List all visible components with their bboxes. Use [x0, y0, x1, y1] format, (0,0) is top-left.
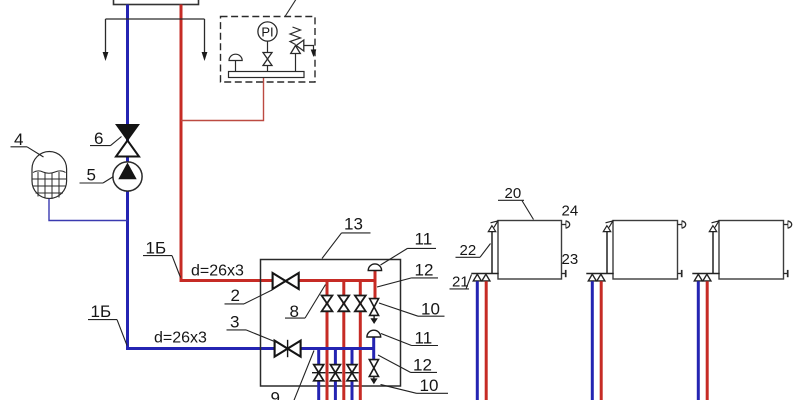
pump 5: [113, 162, 142, 191]
label 1Б (return): [88, 302, 127, 346]
pressure gauge PI U-PI: [267, 41, 269, 53]
wire: red riser radiator 2: [600, 281, 603, 400]
wire: blue riser radiator 3: [697, 281, 700, 400]
label 6: [90, 129, 122, 148]
label 22: [456, 242, 491, 259]
label 5: [80, 166, 114, 185]
svg-text:4: 4: [14, 130, 23, 149]
safety valve with spring: [295, 54, 297, 72]
arrow down left: [103, 52, 109, 61]
label 10 (supply drain): [379, 300, 445, 319]
manifold cabinet box 13: [261, 260, 401, 387]
svg-text:12: 12: [413, 356, 432, 375]
wire: blue return manifold: [301, 347, 375, 350]
wire: red loop drop 3: [359, 281, 362, 400]
label 11 (return air vent): [381, 329, 438, 348]
air vent 24: [562, 224, 567, 226]
safety group dashed box: [221, 17, 316, 83]
valve 3 (blue inlet valve with stem): [275, 341, 301, 357]
svg-text:13: 13: [344, 215, 363, 234]
wire: blue loop stub 2: [334, 349, 337, 400]
svg-text:20: 20: [505, 185, 522, 202]
wire: red riser radiator 1: [485, 281, 488, 400]
svg-text:9: 9: [271, 389, 280, 400]
svg-text:5: 5: [87, 166, 96, 185]
svg-text:d=26x3: d=26x3: [154, 330, 207, 347]
drain arrow 10 (supply): [373, 315, 375, 318]
svg-text:24: 24: [562, 203, 579, 220]
label 10 (return drain): [381, 376, 449, 395]
svg-text:10: 10: [420, 376, 439, 395]
plug 23: [562, 273, 566, 275]
valves 9 on return stubs (with balancing bar): [314, 365, 357, 381]
wire: blue riser radiator 2: [591, 281, 594, 400]
svg-text:22: 22: [460, 242, 477, 259]
expansion tank 4: [32, 152, 67, 199]
leader to cut-off label: [285, 0, 298, 17]
safety valve outlet with arrow: [304, 46, 314, 51]
wire: blue main pipe from boiler down and right to manifold box: [128, 5, 275, 349]
label 21: [450, 274, 472, 291]
valve 12 on supply drain: [370, 299, 379, 316]
wire: red loop drop 2: [342, 281, 345, 400]
wire: red impulse line from collector bar to red main: [181, 78, 264, 121]
tank membrane and mesh: [33, 171, 67, 199]
svg-text:1Б: 1Б: [91, 302, 112, 321]
label 2: [225, 286, 273, 305]
dome sensor on bar: [235, 61, 237, 72]
label 9 (cut at bottom): [271, 351, 315, 400]
svg-text:2: 2: [231, 286, 240, 305]
radiator 20 #3: [692, 220, 791, 400]
wire: tank connection to blue main: [49, 199, 128, 221]
label 3: [227, 313, 275, 342]
svg-text:PI: PI: [261, 25, 273, 40]
air vent 11 on supply manifold: [368, 264, 381, 271]
valve 2 (red inlet ball valve): [273, 273, 299, 289]
svg-text:d=26x3: d=26x3: [191, 263, 244, 280]
wire: blue riser radiator 1: [476, 281, 479, 400]
bracket with flow arrows under boiler: [106, 19, 205, 55]
valves 8 on supply drops: [322, 296, 366, 312]
label 20: [498, 185, 534, 220]
valve 12 on return drain: [369, 360, 378, 377]
label 11 (supply air vent): [381, 230, 437, 266]
gauge shut-off valve: [263, 53, 272, 66]
label 1Б (supply): [143, 239, 181, 278]
bottom connection unit 21: [471, 273, 498, 275]
wire: red loop drop 1: [326, 281, 329, 400]
wire: red end stub to air vent and drain: [374, 271, 377, 300]
label 8: [285, 285, 326, 322]
thermostatic riser 22: [491, 231, 493, 274]
wire: red riser radiator 3: [706, 281, 709, 400]
svg-text:23: 23: [562, 251, 579, 268]
svg-text:11: 11: [415, 329, 433, 348]
radiator 20 #2: [586, 220, 685, 400]
wire: blue end stub to air vent and drain: [372, 337, 375, 360]
svg-text:12: 12: [415, 261, 434, 280]
arrow down right: [202, 52, 208, 61]
drain arrow 10 (return): [373, 376, 375, 378]
wire: blue loop stub 1: [317, 349, 320, 400]
wire: blue loop stub 3: [351, 349, 354, 400]
label 12 (return drain valve): [378, 355, 437, 375]
label 12 (supply drain valve): [377, 261, 438, 288]
wire: red supply manifold: [299, 279, 376, 282]
collector bar inside dashed box: [229, 72, 305, 78]
label 13: [322, 215, 371, 259]
valve 6 on blue main: [116, 125, 139, 141]
wire: red main pipe from boiler down and right to manifold box: [181, 5, 273, 281]
air vent 11 on return manifold: [367, 330, 381, 337]
label 4: [11, 130, 44, 157]
radiator 20 #1: [471, 220, 569, 400]
svg-text:3: 3: [230, 313, 239, 332]
boiler box (top, cut off): [114, 0, 199, 5]
svg-text:1Б: 1Б: [146, 239, 167, 258]
svg-text:11: 11: [415, 230, 433, 249]
svg-text:10: 10: [421, 300, 440, 319]
